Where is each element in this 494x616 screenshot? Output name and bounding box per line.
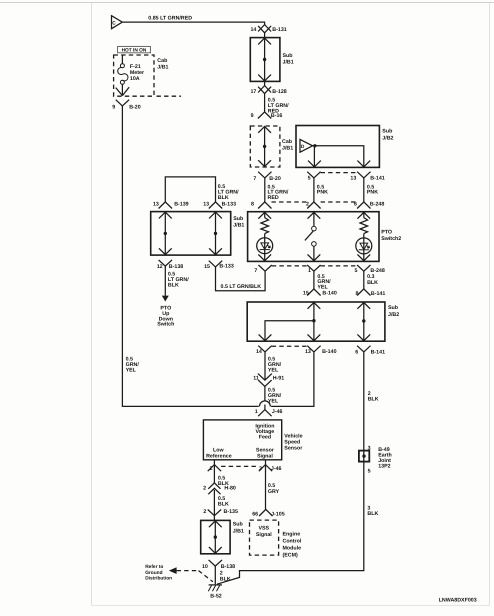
fuse F-21 Meter 10A: [121, 55, 123, 64]
svg-text:H-80: H-80: [224, 486, 236, 492]
svg-text:2: 2: [203, 486, 206, 492]
wire 0.5 GRN/YEL (H-91 to J-46): [264, 386, 266, 400]
inline connector 11 H-91: [258, 374, 272, 381]
svg-text:9: 9: [251, 113, 254, 119]
wire (PTO left branch): [264, 212, 266, 261]
svg-text:Signal: Signal: [256, 532, 272, 538]
svg-text:B-20: B-20: [129, 104, 141, 110]
dashed connector link: [221, 465, 259, 467]
svg-text:5: 5: [368, 469, 371, 475]
svg-text:13: 13: [350, 176, 356, 182]
svg-text:6: 6: [354, 202, 357, 208]
connector 13 B-139: [159, 202, 172, 209]
connector D (page link triangle): [300, 139, 313, 152]
svg-text:10A: 10A: [130, 76, 140, 82]
wire (inside Sub J/B1 top): [264, 38, 266, 81]
svg-text:14: 14: [250, 27, 256, 33]
wire 0.5 LT GRN/BLK (B-133 to PTO pin 7): [216, 267, 266, 291]
svg-text:9: 9: [112, 104, 115, 110]
connector 6 B-248: [357, 202, 370, 209]
arrow down (Sub J/B1 top): [258, 75, 271, 81]
svg-text:13: 13: [203, 201, 209, 207]
wire (Sub J/B1 left branch): [164, 212, 166, 255]
dashed boundary extension: [157, 95, 182, 97]
wire (inside Cab J/B1): [264, 126, 266, 166]
connector 15 B-133: [209, 261, 222, 267]
svg-text:Cab: Cab: [157, 58, 168, 64]
svg-text:LNWA8DXF003: LNWA8DXF003: [439, 598, 477, 604]
svg-text:B-131: B-131: [272, 27, 286, 33]
page frame right border: [489, 3, 491, 606]
arrow up (Sub J/B1 top): [258, 38, 271, 44]
wire 0.5 LT GRN/RED (B-20 to B-248): [264, 178, 266, 202]
svg-text:B-139: B-139: [174, 201, 188, 207]
wire 2 BLK (right rail): [217, 352, 364, 584]
svg-text:Sub: Sub: [233, 216, 244, 222]
junction box Sub J/B1 (top): [250, 38, 280, 82]
wire 0.5 LT GRN/BLK (to PTO up/down switch): [164, 266, 166, 296]
arrow down (Cab J/B1): [258, 160, 271, 166]
svg-text:3: 3: [368, 445, 371, 451]
svg-text:B-20: B-20: [269, 176, 281, 182]
svg-text:Module: Module: [283, 545, 302, 551]
junction dot (Cab J/B1): [263, 145, 266, 148]
ECM dashed box: [250, 520, 279, 555]
wire 0.5 BLK (H-80 to B-135): [213, 490, 215, 516]
connector 14 B-131: [258, 25, 271, 32]
wire (J/B2 middle branch): [265, 302, 314, 341]
svg-text:66: 66: [252, 512, 258, 518]
LED indicator (left): [257, 238, 273, 254]
wire 0.5 GRN/YEL (left rail): [122, 106, 258, 407]
PTO Switch2 box: [248, 212, 379, 262]
svg-text:BLK: BLK: [368, 397, 379, 403]
svg-text:PTO: PTO: [381, 229, 392, 235]
svg-text:B-133: B-133: [222, 201, 236, 207]
svg-text:3: 3: [259, 466, 262, 472]
svg-text:0.5 LT GRN/BLK: 0.5 LT GRN/BLK: [221, 284, 262, 290]
svg-text:Switch: Switch: [157, 322, 174, 328]
svg-text:J/B1: J/B1: [282, 145, 293, 151]
svg-text:10: 10: [202, 564, 208, 570]
junction box Cab J/B1 (dashed, second): [250, 126, 280, 167]
svg-text:7: 7: [254, 268, 257, 274]
arrow down (fuse output): [116, 87, 129, 95]
svg-text:1: 1: [255, 409, 258, 415]
junction bump: [259, 401, 270, 407]
svg-text:5: 5: [354, 268, 357, 274]
svg-text:Feed: Feed: [259, 435, 271, 441]
svg-text:BLK: BLK: [218, 195, 229, 201]
svg-text:B-141: B-141: [371, 291, 385, 297]
svg-text:12: 12: [157, 264, 163, 270]
connector 7 B-20: [258, 172, 271, 178]
junction box Sub J/B2 (lower): [247, 302, 385, 341]
wire jumper bracket (B-139 to B-133): [165, 177, 215, 202]
earth joint B-49: [359, 451, 369, 462]
svg-text:7: 7: [253, 176, 256, 182]
connector 10 B-138: [209, 560, 222, 566]
fuse box Cab J/B1 (dashed): [114, 55, 154, 96]
switch contact (top): [312, 226, 317, 231]
svg-text:Cab: Cab: [282, 139, 293, 145]
junction box Sub J/B1 (bottom): [201, 520, 230, 553]
arrow down (J/B2 left exit): [259, 334, 272, 340]
dashed connector link: [321, 172, 358, 174]
svg-text:B-248: B-248: [370, 202, 384, 208]
connector 2 (B-248): [307, 202, 320, 209]
svg-text:B-140: B-140: [322, 349, 336, 355]
arrow up (Cab J/B1): [258, 127, 271, 133]
switch contact (bottom): [312, 242, 317, 247]
inline connector 2 H-80: [208, 483, 220, 489]
connector 15 B-140: [307, 289, 320, 296]
svg-text:PNK: PNK: [367, 190, 378, 196]
dashed connector link: [272, 345, 308, 347]
wire 0.5 GRN/YEL (pin 1 to B-140): [313, 271, 315, 289]
connector 2 (J-46): [213, 460, 215, 465]
svg-text:H-91: H-91: [273, 375, 285, 381]
svg-text:PNK: PNK: [317, 190, 328, 196]
connector 13 B-140: [307, 346, 320, 352]
connector 3 J-46: [265, 460, 267, 465]
svg-text:Switch2: Switch2: [381, 236, 401, 242]
connector 8 (B-248): [258, 202, 271, 209]
svg-text:Control: Control: [283, 538, 302, 544]
svg-text:Sensor: Sensor: [284, 445, 302, 451]
svg-text:Engine: Engine: [283, 531, 301, 537]
svg-text:BLK: BLK: [168, 282, 179, 288]
svg-text:D: D: [301, 144, 305, 150]
svg-text:B-16: B-16: [271, 113, 283, 119]
wire (PTO right branch): [363, 212, 365, 261]
svg-text:5: 5: [308, 176, 311, 182]
svg-text:J/B1: J/B1: [283, 59, 294, 65]
connector 6 B-141: [357, 346, 370, 352]
connector 9 B-16: [258, 112, 271, 119]
connector 9 B-20: [116, 100, 129, 106]
connector 8 B-141: [357, 289, 370, 296]
svg-text:Distribution: Distribution: [145, 576, 172, 582]
svg-text:B-248: B-248: [370, 268, 384, 274]
svg-text:B-52: B-52: [210, 594, 222, 600]
svg-text:YEL: YEL: [317, 285, 328, 291]
svg-text:Ground: Ground: [145, 570, 162, 576]
svg-text:B-133: B-133: [219, 264, 233, 270]
resistor (PTO indicator, left): [261, 218, 269, 234]
svg-text:Sub: Sub: [233, 522, 244, 528]
svg-text:0.85 LT GRN/RED: 0.85 LT GRN/RED: [148, 15, 192, 21]
svg-text:YEL: YEL: [126, 367, 137, 373]
svg-text:14: 14: [256, 349, 262, 355]
svg-text:2: 2: [203, 509, 206, 515]
svg-text:VSS: VSS: [258, 525, 269, 531]
svg-text:B-141: B-141: [371, 349, 385, 355]
svg-text:J-105: J-105: [271, 512, 285, 518]
svg-text:2: 2: [306, 202, 309, 208]
junction dot (J/B2 middle): [312, 319, 315, 322]
svg-text:(ECM): (ECM): [283, 552, 299, 558]
resistor (PTO indicator, right): [360, 218, 368, 234]
svg-text:11: 11: [253, 375, 259, 381]
dashed connector link: [272, 201, 308, 203]
arrow down (PTO right output): [357, 254, 370, 260]
wire (PTO middle branch): [313, 212, 315, 261]
junction box Sub J/B2 (top): [296, 126, 379, 168]
svg-text:B-128: B-128: [272, 89, 286, 95]
arrow up (PTO left input): [258, 212, 271, 218]
svg-text:Signal: Signal: [257, 453, 273, 459]
wire 0.5 LT GRN/RED: [264, 94, 266, 112]
svg-text:YEL: YEL: [268, 367, 279, 373]
wire 0.5 GRN/YEL (14 to H-91): [264, 352, 266, 380]
svg-text:13: 13: [305, 349, 311, 355]
connector 1 (B-248): [307, 265, 320, 271]
arrow down (Sub J/B2 right exit): [357, 161, 370, 167]
connector 17 B-128: [264, 81, 266, 85]
connector 5 B-248: [357, 265, 370, 271]
svg-text:BLK: BLK: [367, 280, 378, 286]
switch blade: [305, 231, 313, 241]
arrow up (PTO middle input): [308, 212, 321, 218]
dashed arrow to ground distribution: [169, 567, 177, 574]
svg-text:2: 2: [210, 466, 213, 472]
svg-text:Sub: Sub: [283, 53, 294, 59]
svg-text:13P2: 13P2: [378, 463, 390, 469]
svg-text:Sub: Sub: [388, 305, 399, 311]
wire (Sub J/B1 right branch): [215, 212, 217, 255]
svg-text:6: 6: [355, 349, 358, 355]
svg-text:J-46: J-46: [272, 409, 283, 415]
svg-text:B-135: B-135: [224, 509, 238, 515]
arrow down (J/B2 middle exit): [308, 334, 321, 340]
svg-text:J-46: J-46: [271, 466, 282, 472]
dashed connector link: [321, 201, 358, 203]
connector 13 B-141: [357, 172, 370, 178]
connector 2 B-135: [208, 510, 221, 516]
component box Vehicle Speed Sensor: [203, 420, 281, 460]
dashed connector link: [272, 265, 309, 267]
svg-text:1: 1: [308, 268, 311, 274]
svg-text:Sub: Sub: [382, 129, 393, 135]
wire 0.85 LT GRN/RED: [122, 22, 264, 25]
connector C (page link triangle): [112, 16, 123, 29]
svg-text:BLK: BLK: [218, 501, 229, 507]
svg-text:15: 15: [303, 291, 309, 297]
junction dot (Sub J/B1 top): [263, 58, 266, 61]
svg-text:B-138: B-138: [169, 264, 183, 270]
wire 0.5 PNK (right): [363, 178, 365, 202]
svg-text:Refer to: Refer to: [145, 564, 163, 570]
svg-text:C: C: [112, 20, 116, 26]
wire 0.5 PNK (left): [313, 178, 315, 202]
connector 7 (B-248): [258, 265, 271, 271]
connector 13 B-133: [209, 202, 222, 209]
svg-text:J/B2: J/B2: [388, 312, 399, 318]
arrow down (PTO left output): [258, 254, 271, 260]
connector 66 J-105: [259, 509, 272, 516]
svg-text:J/B2: J/B2: [382, 135, 393, 141]
svg-text:J/B1: J/B1: [233, 223, 244, 229]
wire 0.5 BLK (to H-80): [213, 465, 215, 484]
page frame top border: [0, 2, 494, 4]
connector 12 B-138: [159, 260, 172, 266]
arrow to PTO Up Down Switch: [162, 296, 169, 302]
connector 5 (B-141): [307, 172, 320, 178]
arrow down (PTO middle output): [308, 254, 321, 260]
junction dot (Sub J/B2): [313, 144, 316, 147]
ground B-52: [209, 584, 222, 586]
connector 1 J-46: [264, 405, 266, 410]
svg-text:J/B1: J/B1: [157, 64, 168, 70]
svg-text:GRY: GRY: [268, 489, 280, 495]
svg-text:HOT IN ON: HOT IN ON: [122, 48, 147, 54]
wire 0.5 GRY: [265, 465, 267, 510]
svg-text:17: 17: [250, 89, 256, 95]
svg-text:13: 13: [153, 201, 159, 207]
wire (inside bottom Sub J/B1): [214, 521, 216, 554]
svg-text:J/B1: J/B1: [233, 528, 244, 534]
svg-text:B-140: B-140: [322, 291, 336, 297]
connector 14 (B-140): [258, 346, 271, 352]
svg-text:8: 8: [251, 202, 254, 208]
label HOT IN ON: [118, 46, 151, 52]
wire 0.3 BLK (pin 5 to B-141): [363, 271, 365, 289]
page frame left border: [91, 3, 93, 606]
wire (J/B2 right branch): [363, 302, 365, 341]
svg-text:B-141: B-141: [370, 176, 384, 182]
svg-text:15: 15: [204, 264, 210, 270]
junction box Sub J/B1 (left): [151, 212, 231, 256]
arrow down (Sub J/B2 left exit): [308, 161, 321, 167]
page frame bottom border: [92, 605, 490, 607]
svg-text:BLK: BLK: [367, 511, 378, 517]
dashed connector link: [321, 265, 358, 267]
wire (inside Sub J/B2): [313, 146, 364, 167]
LED indicator (right): [356, 238, 372, 254]
arrow up (PTO right input): [357, 212, 370, 218]
svg-text:B-138: B-138: [221, 564, 235, 570]
wire (B-140 to junction): [271, 352, 314, 407]
wire 2 BLK (to ground): [214, 566, 216, 584]
svg-text:8: 8: [355, 291, 358, 297]
svg-text:RED: RED: [268, 195, 279, 201]
svg-text:Reference: Reference: [206, 453, 232, 459]
